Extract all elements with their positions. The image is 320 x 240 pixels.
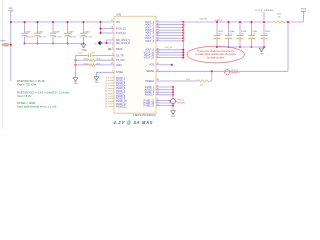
pin PGND_23 23: [144, 104, 159, 107]
pin VIN 41: [111, 20, 120, 24]
svg-text:C148: C148: [54, 31, 60, 33]
svg-text:C152: C152: [78, 52, 83, 54]
svg-text:42: 42: [111, 63, 113, 65]
node VIN junction: [99, 21, 101, 23]
svg-text:C149: C149: [68, 31, 74, 33]
node SW junction: [105, 42, 107, 44]
node PGND_22 junction: [172, 102, 174, 104]
svg-text:34: 34: [111, 27, 113, 29]
wire VOUT_8: [156, 40, 183, 42]
svg-text:AGND_3: AGND_3: [145, 91, 155, 94]
svg-text:R167: R167: [186, 79, 191, 81]
svg-text:38: 38: [111, 58, 113, 60]
pin VOUT_9 39: [145, 49, 159, 52]
capacitor C150: [80, 22, 93, 44]
svg-text:VOUT_6: VOUT_6: [145, 35, 155, 37]
svg-text:RETURN: RETURN: [177, 102, 185, 104]
svg-text:P-ON_S1: P-ON_S1: [116, 29, 127, 31]
wire output cap ground rail: [217, 46, 264, 48]
svg-text:PV13: PV13: [301, 8, 307, 10]
wire AGND_4: [156, 94, 173, 96]
resistor R167: [186, 71, 212, 86]
wire VOUT_7: [156, 37, 183, 39]
svg-text:VOUT_4: VOUT_4: [145, 30, 155, 32]
pin AGND_4 26: [145, 94, 159, 97]
svg-text:VADJ: VADJ: [116, 64, 122, 67]
wire P-ON_S1: [101, 28, 115, 30]
ground RC network: [73, 78, 78, 85]
pin SW_LP1/2_S 2: [112, 38, 130, 42]
power flag PV13: [301, 8, 307, 22]
node C150 top junction: [82, 21, 84, 23]
pin AGND_2 28: [145, 88, 159, 91]
svg-text:10u 25V: 10u 25V: [68, 37, 76, 39]
node C149 bottom junction: [66, 42, 68, 44]
wire SENSE vertical to output: [287, 22, 289, 71]
pin PGND_6 13: [105, 91, 126, 93]
svg-text:GND: GND: [73, 83, 78, 85]
note RSET equations: [17, 79, 70, 98]
svg-text:GND: GND: [94, 82, 99, 84]
wire PGND_23: [156, 105, 173, 107]
svg-text:VOS: VOS: [149, 65, 154, 67]
svg-text:Vout S6: Vout S6: [200, 18, 208, 21]
pin SS_TR 5: [112, 54, 124, 58]
capacitor C146: [21, 22, 34, 44]
svg-text:VOUT_12: VOUT_12: [144, 58, 155, 60]
pin P-ON_A1 1: [112, 31, 126, 35]
annotation sense circle: [225, 69, 241, 74]
svg-text:VOUT_5: VOUT_5: [145, 33, 155, 35]
capacitor C144: [225, 22, 235, 47]
svg-text:for thermal relief: for thermal relief: [207, 56, 225, 59]
wire AGND_2: [156, 89, 173, 91]
svg-text:R166: R166: [277, 14, 282, 16]
wire PWRGD: [156, 80, 198, 82]
wire VOUT_11: [156, 54, 183, 56]
svg-text:RT_CLK: RT_CLK: [116, 60, 125, 62]
node C145 bottom junction: [263, 46, 265, 48]
node C148 bottom junction: [52, 42, 54, 44]
node R166/sense junction: [287, 21, 289, 23]
svg-text:Slow start interval set to 1.1: Slow start interval set to 1.1 mS: [17, 105, 56, 109]
pin VOUT_11 37: [144, 54, 159, 57]
wire AGND_1: [156, 86, 173, 88]
svg-text:Fsw = 730 KHz: Fsw = 730 KHz: [17, 83, 37, 87]
ground AGND: [170, 111, 175, 118]
node AGND_2 junction: [172, 89, 174, 91]
net label PV13_SENSE: [256, 10, 274, 22]
svg-text:C146: C146: [25, 31, 31, 33]
svg-text:2: 2: [112, 38, 113, 40]
svg-text:GND: GND: [259, 53, 264, 55]
node C148 top junction: [52, 21, 54, 23]
node VOUT_6 junction: [182, 34, 184, 36]
wire VOUT_6: [156, 35, 183, 37]
pin PGND_5 12: [105, 88, 126, 90]
pin PGND_21 25: [144, 99, 159, 102]
node PGND_21 junction: [172, 99, 174, 101]
wire VOUT_12: [156, 57, 183, 59]
svg-text:PWRGD: PWRGD: [145, 81, 154, 83]
wire VOUT_2: [156, 24, 183, 26]
node VOUT_12 junction: [182, 57, 184, 59]
svg-text:PV13_SENSE: PV13_SENSE: [256, 10, 274, 12]
svg-text:SW_LP1/2_S: SW_LP1/2_S: [116, 40, 130, 42]
wire AGND_3: [156, 91, 173, 93]
svg-text:U7B: U7B: [117, 14, 122, 16]
node C146 top junction: [23, 21, 25, 23]
svg-text:19: 19: [105, 106, 107, 108]
pin STSEL 7: [112, 71, 124, 75]
node C144 top junction: [227, 21, 229, 23]
wire VOUT_1 bus: [183, 21, 273, 23]
pin VOUT_3 45: [145, 26, 159, 29]
wire P-ON_A1: [101, 32, 115, 34]
pin VOUT_12 36: [144, 56, 159, 59]
node VOUT_2 junction: [182, 24, 184, 26]
node AGND_1 junction: [172, 86, 174, 88]
svg-text:AGND_1: AGND_1: [145, 86, 155, 89]
node VOUT_1 junction: [182, 21, 184, 23]
pin VADJ 42: [111, 63, 122, 67]
wire VOS stub: [156, 64, 172, 66]
svg-text:SENSE: SENSE: [146, 71, 154, 73]
svg-text:GND: GND: [171, 116, 176, 118]
svg-text:LMZ31506RUQ: LMZ31506RUQ: [133, 113, 156, 117]
svg-text:10u 25V: 10u 25V: [25, 37, 33, 39]
pin PGND_3 10: [105, 83, 126, 85]
node VOUT_3 junction: [182, 26, 184, 28]
svg-text:C147: C147: [38, 31, 44, 33]
svg-text:RSVD: RSVD: [116, 49, 123, 51]
capacitor C142: [214, 22, 224, 47]
wire P5V vertical drop: [10, 22, 12, 81]
svg-text:P5V: P5V: [9, 8, 14, 10]
svg-text:SW_LP1/2_B: SW_LP1/2_B: [116, 43, 130, 45]
pin RT_CLK 38: [111, 58, 125, 62]
pin PGND_4 11: [105, 86, 125, 88]
capacitor C143: [237, 22, 247, 47]
node C149 top junction: [66, 21, 68, 23]
wire RC ground vertical: [75, 56, 77, 78]
pin SW_LP1/2_B 3: [112, 43, 130, 47]
svg-text:10k: 10k: [277, 17, 280, 19]
pin VOUT_5 43: [145, 32, 159, 35]
node C143 bottom junction: [239, 46, 241, 48]
svg-text:C150: C150: [84, 31, 90, 33]
pin AGND_3 27: [145, 91, 159, 94]
svg-text:10k: 10k: [200, 84, 203, 86]
pin PGND_22 24: [144, 102, 159, 105]
svg-text:VIN: VIN: [116, 22, 120, 24]
capacitor C149: [64, 22, 77, 44]
node AGND_3 junction: [172, 91, 174, 93]
wire VOUT_9: [156, 49, 183, 51]
svg-text:AGND_2: AGND_2: [145, 89, 155, 92]
svg-text:VOS_5N: VOS_5N: [164, 47, 172, 49]
wire PGND_21: [156, 99, 173, 101]
node VOUT_8 junction: [182, 40, 184, 42]
node PGND_23 junction: [172, 105, 174, 107]
svg-text:PGND_23: PGND_23: [144, 106, 155, 108]
svg-text:Vout = 4.2V: Vout = 4.2V: [17, 94, 32, 98]
svg-text:10u 25V: 10u 25V: [38, 37, 46, 39]
svg-text:10u 25V: 10u 25V: [54, 37, 62, 39]
node AGND_4 junction: [172, 94, 174, 96]
svg-text:VOUT_8: VOUT_8: [145, 41, 155, 43]
svg-text:41: 41: [111, 20, 113, 22]
node R161 junction: [74, 64, 76, 66]
node C141 bottom junction: [250, 46, 252, 48]
node C144 bottom junction: [227, 46, 229, 48]
pin VOS stub: [149, 63, 158, 67]
svg-text:AGND_4: AGND_4: [145, 94, 155, 97]
pin VOUT_7 41: [145, 37, 159, 40]
svg-text:PV13_S: PV13_S: [177, 100, 184, 102]
node VOUT_10 junction: [182, 51, 184, 53]
svg-text:P5V0: P5V0: [1, 41, 7, 43]
svg-text:SS_TR: SS_TR: [116, 55, 124, 57]
pin PGND_2 9: [106, 80, 126, 82]
svg-text:SENSE PT: SENSE PT: [231, 73, 241, 75]
pin VOUT_2 46: [145, 23, 159, 26]
svg-text:VOUT_1: VOUT_1: [215, 20, 224, 22]
node VOUT_7 junction: [182, 37, 184, 39]
node C142 bottom junction: [216, 46, 218, 48]
pin VOUT_10 38: [144, 51, 159, 54]
pin VOUT_4 44: [145, 29, 159, 32]
svg-text:1: 1: [112, 31, 113, 33]
off-page connector P5V0: [1, 41, 11, 47]
IC U7B LMZ31506RUQ: [114, 14, 156, 117]
node SENSE/R167 junction: [211, 70, 213, 72]
wire LP1 to pins: [100, 42, 107, 44]
pin SENSE 44: [146, 70, 158, 74]
pin PGND_7 14: [105, 93, 126, 95]
pin VOUT_6 42: [145, 34, 159, 37]
svg-text:P-ON_A1: P-ON_A1: [116, 32, 127, 35]
node VOUT_4 junction: [182, 29, 184, 31]
node VOUT_9 junction: [182, 49, 184, 51]
node R160 junction: [74, 59, 76, 61]
capacitor C145: [261, 22, 271, 47]
annotation thermal ellipse: [187, 46, 244, 63]
node bus-left junction: [10, 21, 12, 23]
pin PGND_9 16: [105, 99, 126, 101]
node VOUT_11 junction: [182, 54, 184, 56]
wire VOUT_5: [156, 32, 183, 34]
node C147 bottom junction: [36, 42, 38, 44]
svg-text:4.2V @ 6A MAX: 4.2V @ 6A MAX: [113, 120, 154, 125]
node VOS stub end: [171, 64, 173, 66]
svg-text:VOUT_3: VOUT_3: [145, 27, 155, 29]
capacitor C152: [76, 50, 115, 57]
ground output caps: [259, 48, 264, 55]
svg-text:10u 25V: 10u 25V: [84, 37, 92, 39]
node C141 top junction: [250, 21, 252, 23]
node C142 top junction: [216, 21, 218, 23]
wire VOUT_1: [156, 21, 183, 23]
svg-text:4: 4: [112, 47, 113, 49]
wire VOUT_4: [156, 29, 183, 31]
wire VOUT collector vertical: [182, 22, 184, 58]
note STSEL: [17, 101, 56, 109]
svg-text:VOUT_1: VOUT_1: [145, 22, 155, 24]
svg-text:PGND_12: PGND_12: [116, 106, 127, 108]
svg-text:STSEL: STSEL: [116, 72, 124, 74]
wire VOUT_10: [156, 51, 183, 53]
pin VOUT_1 47: [145, 21, 159, 24]
pin PGND_10 17: [105, 101, 127, 103]
node C150 bottom junction: [82, 42, 84, 44]
pin PGND_8 15: [105, 96, 126, 98]
pin PWRGD 30: [145, 79, 158, 83]
wire P5V bus: [11, 21, 114, 23]
resistor R160: [76, 59, 115, 62]
svg-text:VOUT_7: VOUT_7: [145, 38, 155, 40]
resistor R166: [273, 14, 285, 24]
node C143 top junction: [239, 21, 241, 23]
capacitor C147: [34, 22, 47, 44]
wire cap bank ground rail: [25, 43, 84, 45]
pin AGND_1 29: [145, 86, 159, 89]
svg-text:PV13_S: PV13_S: [231, 70, 238, 72]
power flag P5V: [8, 8, 13, 22]
wire VIN junction vertical: [100, 22, 102, 33]
wire PGND_22: [156, 102, 173, 104]
wire AGND collector vertical: [172, 87, 174, 111]
pin PGND_1 8: [106, 78, 126, 80]
resistor R161: [76, 63, 115, 66]
node C145 top junction: [263, 21, 265, 23]
svg-text:VOUT_2: VOUT_2: [145, 25, 155, 27]
pin PGND_12 19: [105, 106, 127, 108]
pin VOUT_8 40: [145, 40, 159, 43]
node VOUT_5 junction: [182, 32, 184, 34]
pin PGND_11 18: [105, 104, 127, 106]
wire VOUT_3: [156, 26, 183, 28]
svg-text:5: 5: [112, 54, 113, 56]
wire STSEL to ground: [97, 71, 115, 73]
capacitor C141: [248, 22, 258, 47]
net LP1 tie: [94, 41, 102, 45]
capacitor C148: [50, 22, 63, 44]
pin P-ON_S1 34: [111, 27, 126, 31]
node P-ON_S1 junction: [99, 27, 101, 29]
ground cap bank: [81, 44, 86, 51]
node off-page junction: [10, 44, 12, 46]
node C146 bottom junction: [23, 42, 25, 44]
node C147 top junction: [36, 21, 38, 23]
node P-ON_A1 junction: [99, 32, 101, 34]
ground STSEL: [94, 77, 99, 84]
sheet border: [2, 0, 4, 129]
annotation single-point-ground target: [169, 98, 185, 105]
wire SENSE line: [156, 70, 288, 72]
pin RSVD 4 no-connect: [108, 47, 122, 51]
